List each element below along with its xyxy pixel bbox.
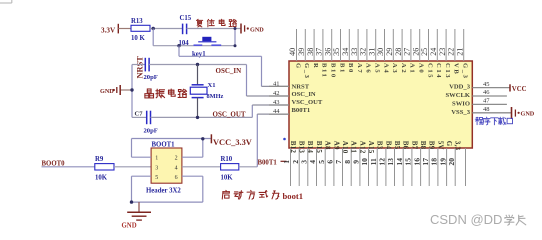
label 复位电路 xyxy=(196,19,202,27)
svg-text:42: 42 xyxy=(273,90,280,97)
node NRST to MCU xyxy=(177,44,180,47)
svg-text:A12: A12 xyxy=(358,141,366,154)
svg-text:A0: A0 xyxy=(418,63,425,74)
pin 27 (top) xyxy=(410,29,412,61)
pin 22 (top) xyxy=(454,29,456,61)
svg-text:B8: B8 xyxy=(419,141,427,150)
svg-text:B00T1: B00T1 xyxy=(292,107,311,114)
svg-text:27: 27 xyxy=(403,48,412,56)
svg-text:VSS_3: VSS_3 xyxy=(451,109,470,116)
svg-text:B12: B12 xyxy=(289,141,297,154)
wire header pin1 stub xyxy=(132,156,152,158)
capacitor C14 20pF (top) xyxy=(132,64,145,66)
header BOOT1 Header 3X2 xyxy=(151,148,182,183)
svg-text:A1: A1 xyxy=(409,63,416,74)
svg-text:G: G xyxy=(294,63,301,70)
svg-text:13: 13 xyxy=(386,158,395,166)
svg-text:35: 35 xyxy=(332,48,341,56)
svg-text:3.3V: 3.3V xyxy=(101,26,116,34)
svg-text:GND: GND xyxy=(100,88,114,95)
svg-text:1: 1 xyxy=(155,156,158,162)
svg-text:C15: C15 xyxy=(426,63,433,79)
pin 31 (top) xyxy=(375,29,377,61)
pin 6 (bottom) xyxy=(333,148,335,186)
power VCC (pin45) xyxy=(509,84,511,91)
svg-text:GND: GND xyxy=(122,222,137,229)
svg-text:33: 33 xyxy=(350,48,359,56)
svg-text:25: 25 xyxy=(420,48,429,56)
svg-text:10 K: 10 K xyxy=(131,35,145,42)
svg-text:R9: R9 xyxy=(95,156,104,163)
svg-text:A8: A8 xyxy=(324,141,332,150)
svg-text:5: 5 xyxy=(317,160,326,164)
pin 2 (bottom) xyxy=(298,148,300,186)
svg-text:39: 39 xyxy=(297,48,306,56)
pin 37 (top) xyxy=(322,29,324,61)
pin 32 (top) xyxy=(366,29,368,61)
svg-text:GND: GND xyxy=(250,27,264,34)
svg-text:40: 40 xyxy=(288,48,297,56)
svg-text:A6: A6 xyxy=(365,63,372,74)
svg-text:OSC_IN: OSC_IN xyxy=(216,67,242,75)
svg-text:boot1: boot1 xyxy=(283,191,304,201)
svg-text:7: 7 xyxy=(334,160,343,164)
pin 36 (top) xyxy=(331,29,333,61)
svg-text:47: 47 xyxy=(483,98,490,105)
svg-text:B4: B4 xyxy=(384,141,392,150)
svg-text:32: 32 xyxy=(359,48,368,56)
svg-text:R: R xyxy=(312,63,319,69)
svg-text:37: 37 xyxy=(315,48,324,56)
svg-text:A7: A7 xyxy=(356,63,363,74)
svg-text:OSC_IN: OSC_IN xyxy=(292,91,316,98)
resistor R10 10K xyxy=(182,166,221,168)
svg-text:VDD_3: VDD_3 xyxy=(449,84,471,91)
wire R10 to BOOT1 pin xyxy=(239,166,257,168)
pin 4 (bottom) xyxy=(316,148,318,186)
svg-text:A2: A2 xyxy=(400,63,407,74)
svg-text:5V: 5V xyxy=(436,141,444,150)
svg-text:B14: B14 xyxy=(306,141,314,154)
ground GND (reset, right) xyxy=(240,24,242,34)
svg-text:3: 3 xyxy=(155,165,158,171)
svg-text:17: 17 xyxy=(421,158,430,166)
svg-text:B15: B15 xyxy=(315,141,323,154)
svg-text:B3: B3 xyxy=(376,141,384,150)
svg-text:20: 20 xyxy=(447,158,456,166)
svg-text:OSC_OUT: OSC_OUT xyxy=(213,110,246,118)
svg-text:VCC_3.3V: VCC_3.3V xyxy=(213,138,252,147)
svg-text:43: 43 xyxy=(273,99,280,106)
svg-text:10K: 10K xyxy=(221,175,234,182)
op-amp U? MCU STM32 body xyxy=(289,61,472,148)
svg-text:B00T1: B00T1 xyxy=(258,159,278,166)
pin 47 (right) SWIO xyxy=(472,103,507,105)
svg-text:36: 36 xyxy=(323,48,332,56)
pin 11 (bottom) xyxy=(376,148,378,186)
svg-text:20pF: 20pF xyxy=(144,74,158,81)
pin 13 (bottom) xyxy=(394,148,396,186)
wire R9 to header xyxy=(114,166,151,168)
svg-text:Header 3X2: Header 3X2 xyxy=(146,188,181,195)
svg-text:3,3: 3,3 xyxy=(454,141,462,151)
wire BOOT0 to R9 xyxy=(42,166,95,168)
crystal X1 8MHz xyxy=(197,65,199,85)
svg-text:5: 5 xyxy=(155,175,158,181)
svg-text:45: 45 xyxy=(483,81,490,88)
node NRST junction at R13/C15 xyxy=(152,27,155,30)
svg-text:41: 41 xyxy=(273,81,280,88)
svg-text:CSDN @DD: CSDN @DD xyxy=(430,212,502,227)
svg-text:3: 3 xyxy=(300,160,309,164)
wire 3.3V to R13 xyxy=(118,28,131,30)
pin 9 (bottom) xyxy=(359,148,361,186)
sheet border corner xyxy=(0,2,12,4)
svg-text:10: 10 xyxy=(360,158,369,166)
svg-text:G: G xyxy=(445,141,453,147)
svg-text:46: 46 xyxy=(483,89,490,96)
svg-text:14: 14 xyxy=(395,158,404,166)
svg-text:B0: B0 xyxy=(347,63,354,74)
svg-text:30: 30 xyxy=(376,48,385,56)
svg-text:C15: C15 xyxy=(180,15,192,22)
wire top loop to VCC_3.3V xyxy=(131,139,133,158)
svg-text:2: 2 xyxy=(175,156,178,162)
svg-text:A15: A15 xyxy=(367,141,375,154)
pin 23 (top) xyxy=(445,29,447,61)
svg-text:A10: A10 xyxy=(341,141,349,154)
svg-text:4: 4 xyxy=(175,165,178,171)
svg-text:44: 44 xyxy=(273,108,280,115)
svg-text:C13: C13 xyxy=(444,63,451,79)
svg-text:VSC_OUT: VSC_OUT xyxy=(292,99,323,106)
svg-text:A3: A3 xyxy=(391,63,398,74)
pin 45 (right) VDD_3 xyxy=(472,87,510,89)
wire NRST run xyxy=(179,55,262,57)
svg-text:VCC: VCC xyxy=(512,86,527,93)
pin 35 (top) xyxy=(340,29,342,61)
ground GND (pin48) xyxy=(511,107,513,119)
ground rail left xyxy=(131,65,133,118)
pin 38 (top) xyxy=(313,29,315,61)
wire junction down xyxy=(152,29,154,46)
wire R13 to C15 xyxy=(150,28,182,30)
svg-text:BOOT1: BOOT1 xyxy=(152,142,176,149)
pin 48 (right) VSS_3 xyxy=(472,112,511,114)
pin 25 (top) xyxy=(428,29,430,61)
pin 30 (top) xyxy=(384,29,386,61)
svg-text:22: 22 xyxy=(447,48,456,56)
svg-text:NRST: NRST xyxy=(292,83,310,90)
svg-text:1: 1 xyxy=(282,160,291,164)
svg-text:B7: B7 xyxy=(410,141,418,150)
resistor R13 xyxy=(131,25,150,31)
svg-text:23: 23 xyxy=(438,48,447,56)
pin 28 (top) xyxy=(401,29,403,61)
pin 41 (left) NRST xyxy=(269,85,289,87)
pin 15 (bottom) xyxy=(411,148,413,186)
pin 18 (bottom) xyxy=(437,148,439,186)
pin 19 (bottom) xyxy=(446,148,448,186)
pin 24 (top) xyxy=(436,29,438,61)
pin 34 (top) xyxy=(348,29,350,61)
svg-text:28: 28 xyxy=(394,48,403,56)
svg-text:B13: B13 xyxy=(298,141,306,154)
svg-text:29: 29 xyxy=(385,48,394,56)
svg-text:31: 31 xyxy=(367,48,376,56)
port VCC_3.3V xyxy=(210,134,212,143)
label 程序下载口 xyxy=(475,117,483,124)
svg-text:34: 34 xyxy=(341,48,350,56)
svg-text:B10: B10 xyxy=(330,63,337,79)
pin 26 (top) xyxy=(419,29,421,61)
pin 12 (bottom) xyxy=(385,148,387,186)
svg-text:6: 6 xyxy=(175,175,178,181)
node crystal top xyxy=(196,63,199,66)
pin 39 (top) xyxy=(304,29,306,61)
wire header pin5/pin6 bottom loop xyxy=(132,175,152,177)
svg-text:B5: B5 xyxy=(393,141,401,150)
svg-text:11: 11 xyxy=(369,158,378,165)
label 启动方式为boot1 xyxy=(222,190,229,199)
wire key1 right side up xyxy=(234,29,236,46)
pin 14 (bottom) xyxy=(402,148,404,186)
svg-text:26: 26 xyxy=(411,48,420,56)
pin 46 (right) SWCLK xyxy=(472,95,507,97)
svg-text:G_3: G_3 xyxy=(303,63,310,80)
svg-text:B11: B11 xyxy=(321,63,328,78)
svg-text:A4: A4 xyxy=(382,63,389,74)
svg-text:20pF: 20pF xyxy=(144,128,158,135)
svg-text:C14: C14 xyxy=(435,63,442,79)
svg-text:R10: R10 xyxy=(221,156,233,163)
svg-text:38: 38 xyxy=(306,48,315,56)
svg-text:GND: GND xyxy=(521,110,535,117)
stray blue dot xyxy=(283,138,286,141)
pin 29 (top) xyxy=(392,29,394,61)
svg-text:SWCLK: SWCLK xyxy=(445,92,470,99)
switch key1 xyxy=(202,37,211,42)
wire C15 to GND xyxy=(187,28,241,30)
pin 40 (top) xyxy=(296,29,298,61)
pin 5 (bottom) xyxy=(324,148,326,186)
svg-text:21: 21 xyxy=(455,48,464,56)
svg-text:15: 15 xyxy=(404,158,413,166)
svg-text:VB: VB xyxy=(453,63,460,75)
svg-text:SWIO: SWIO xyxy=(452,100,470,107)
svg-text:A5: A5 xyxy=(374,63,381,74)
capacitor C7 20pF (bottom) xyxy=(132,116,147,118)
svg-text:48: 48 xyxy=(483,106,490,113)
svg-text:4: 4 xyxy=(308,160,317,164)
pin 16 (bottom) xyxy=(420,148,422,186)
svg-text:R13: R13 xyxy=(131,18,143,25)
svg-text:C7: C7 xyxy=(135,111,144,118)
svg-text:24: 24 xyxy=(429,48,438,56)
pin 1 (bottom) xyxy=(290,148,292,186)
svg-text:G_3: G_3 xyxy=(462,63,469,80)
svg-text:8: 8 xyxy=(343,160,352,164)
pin 44 (left) B00T1 xyxy=(269,113,289,115)
svg-text:B6: B6 xyxy=(402,141,410,150)
wire OSC_OUT xyxy=(151,116,253,118)
svg-text:8MHz: 8MHz xyxy=(207,93,224,100)
svg-text:B1: B1 xyxy=(338,63,345,74)
pin 10 (bottom) xyxy=(368,148,370,186)
pin 42 (left) OSC_IN xyxy=(269,95,289,97)
svg-text:X1: X1 xyxy=(208,82,216,89)
label 晶振电路 xyxy=(145,89,154,98)
capacitor C15 value 104 xyxy=(182,24,184,35)
svg-text:18: 18 xyxy=(430,158,439,166)
pin 21 (top) xyxy=(463,29,465,61)
pin 3 (bottom) xyxy=(307,148,309,186)
pin 7 (bottom) xyxy=(342,148,344,186)
svg-text:A9: A9 xyxy=(332,141,340,150)
pin 33 (top) xyxy=(357,29,359,61)
svg-text:10K: 10K xyxy=(95,175,108,182)
wire header pin2 stub xyxy=(182,156,203,158)
pin 20 (bottom) xyxy=(454,148,456,186)
ground GND (header) xyxy=(138,202,140,212)
resistor R9 10K xyxy=(95,164,114,170)
svg-text:A11: A11 xyxy=(350,141,358,154)
pin 17 (bottom) xyxy=(428,148,430,186)
pin 43 (left) VSC_OUT xyxy=(269,104,289,106)
wire OSC_IN xyxy=(149,64,246,66)
pin 8 (bottom) xyxy=(350,148,352,186)
wire lower reset loop xyxy=(153,45,235,47)
pin stub (bottom right, unnumbered) xyxy=(465,148,467,186)
svg-text:B9: B9 xyxy=(428,141,436,150)
